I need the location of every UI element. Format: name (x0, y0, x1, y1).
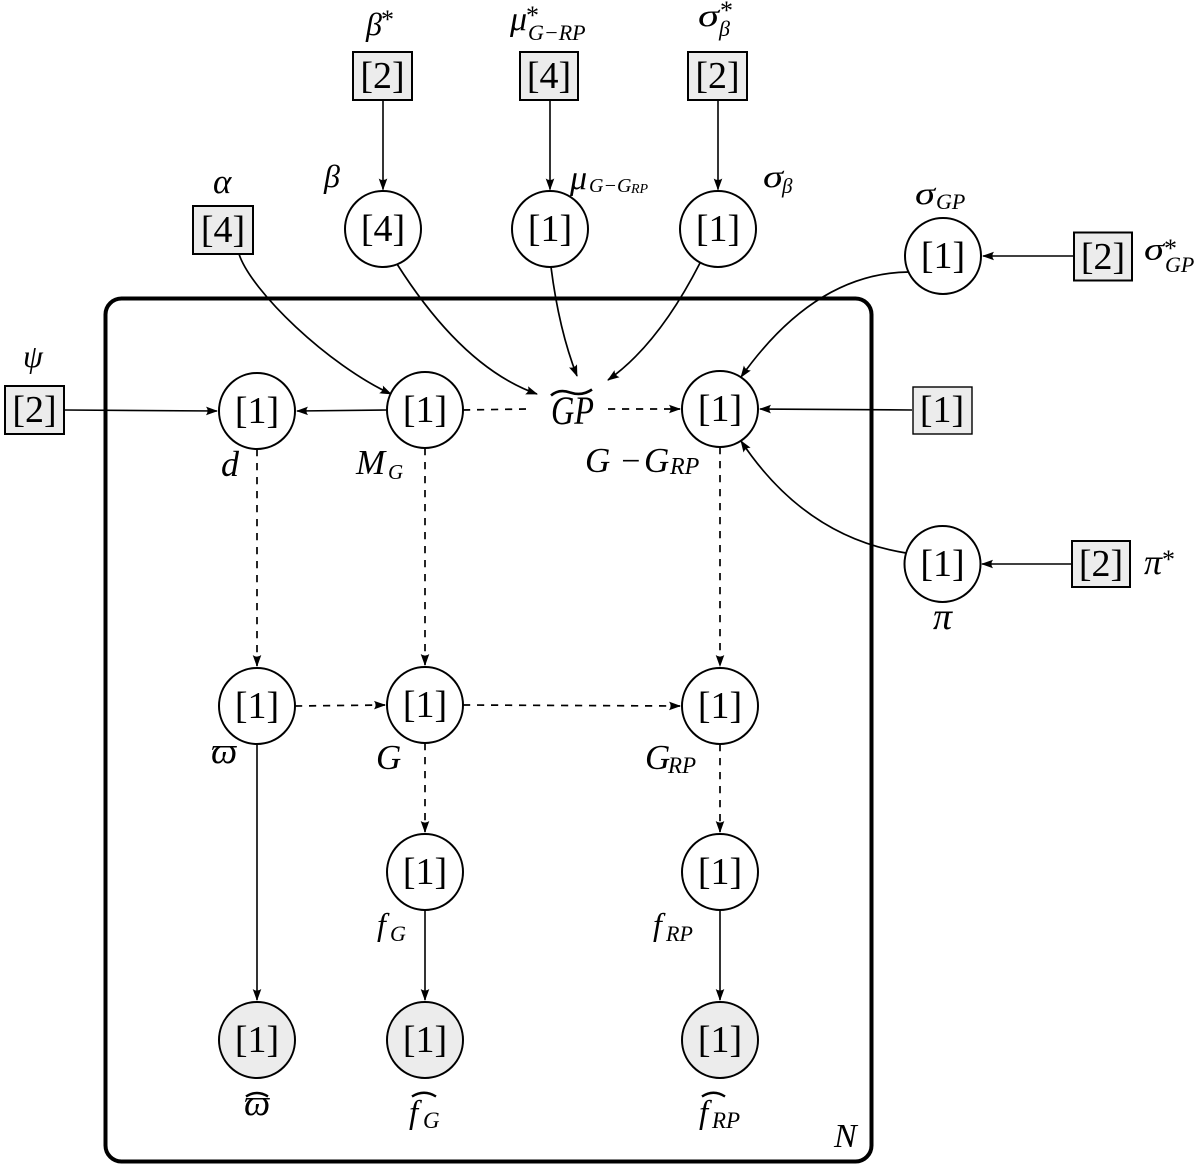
label fRP (653, 906, 693, 946)
svg-text:ϖ: ϖ (244, 1083, 270, 1124)
svg-text:ψ: ψ (23, 338, 44, 374)
svg-text:[1]: [1] (235, 685, 279, 727)
label MG (355, 443, 403, 484)
svg-text:[1]: [1] (698, 851, 742, 893)
node fRPhat circle shaded (682, 1002, 758, 1078)
label pi* (1144, 542, 1175, 582)
svg-text:[2]: [2] (695, 55, 739, 97)
node GGRP circle (682, 371, 758, 447)
label sigmaGP (915, 175, 965, 214)
node beta circle (345, 191, 421, 267)
wire d-to-varpi dashed (256, 449, 258, 666)
svg-text:GP: GP (551, 388, 594, 433)
label muGGRP (569, 160, 649, 197)
wire pi-to-GGRP curved (741, 441, 906, 553)
svg-text:[1]: [1] (920, 543, 964, 585)
node mu circle (512, 191, 588, 267)
wire fRP-to-fRPhat (719, 910, 721, 1000)
svg-text:RP: RP (711, 1108, 740, 1133)
node beta* box (353, 52, 412, 100)
svg-text:G: G (376, 738, 401, 777)
svg-text:d: d (221, 444, 240, 484)
label fG (377, 906, 406, 946)
label sigmabeta (763, 158, 793, 198)
node d circle (219, 373, 295, 449)
svg-text:[4]: [4] (201, 209, 245, 251)
node sigmaGP* box (1074, 233, 1132, 281)
svg-text:σ: σ (698, 0, 721, 33)
label mu*GRP (509, 1, 586, 45)
svg-text:RP: RP (630, 182, 649, 197)
svg-text:[1]: [1] (403, 851, 447, 893)
wire G-to-GRP dashed (463, 705, 680, 706)
wire fG-to-fGhat (424, 910, 426, 1000)
svg-text:[2]: [2] (1081, 236, 1125, 278)
svg-text:G: G (644, 441, 669, 480)
node const1 box (913, 387, 972, 434)
wire beta-to-GP curved (397, 264, 537, 394)
svg-text:RP: RP (669, 454, 700, 480)
svg-text:G: G (388, 460, 403, 484)
svg-text:ϖ: ϖ (211, 731, 237, 772)
svg-text:[4]: [4] (527, 55, 571, 97)
node varpi circle (219, 668, 295, 744)
label beta* (365, 5, 394, 42)
node sigmabeta circle (680, 191, 756, 267)
svg-text:GP: GP (1165, 252, 1194, 277)
node pi* box (1072, 541, 1130, 587)
svg-text:α: α (213, 162, 232, 201)
wire GP-to-GGRP dashed (608, 408, 680, 410)
svg-text:β: β (365, 6, 382, 42)
wire varpi-to-varpihat (256, 744, 258, 1000)
svg-text:π: π (933, 596, 953, 638)
svg-text:σ: σ (1144, 231, 1166, 267)
svg-text:RP: RP (667, 753, 696, 778)
wire psi-to-d (64, 410, 217, 411)
svg-text:β: β (718, 16, 730, 41)
node GRP circle (682, 668, 758, 744)
svg-text:G: G (585, 441, 610, 480)
svg-text:*: * (1162, 545, 1175, 574)
label varpihat (244, 1083, 270, 1124)
node psi box (5, 386, 64, 434)
label G-GRP (585, 441, 700, 480)
svg-text:[1]: [1] (698, 685, 742, 727)
svg-text:π: π (1144, 542, 1163, 582)
node MG circle (387, 372, 463, 448)
svg-text:[1]: [1] (403, 684, 447, 726)
wire MG-to-GP dashed (463, 409, 526, 410)
svg-text:G: G (645, 738, 670, 777)
svg-text:N: N (833, 1118, 859, 1155)
svg-text:[2]: [2] (12, 389, 56, 431)
svg-text:β: β (781, 174, 793, 198)
label fRPhat (699, 1093, 740, 1133)
svg-text:σ: σ (915, 175, 937, 211)
node sigmabeta* box (688, 52, 747, 100)
svg-text:[4]: [4] (361, 208, 405, 250)
wire MG-to-d (297, 410, 387, 411)
svg-text:[1]: [1] (235, 1019, 279, 1061)
svg-text:G−RP: G−RP (528, 20, 586, 45)
wire beta*-to-beta (382, 100, 384, 190)
svg-text:[2]: [2] (360, 55, 404, 97)
node alpha box (193, 206, 253, 254)
wire G-to-fG dashed (424, 743, 426, 832)
svg-text:*: * (381, 5, 394, 34)
label GRP (645, 738, 696, 778)
wire sigmaGP-to-GGRP curved (741, 272, 909, 377)
svg-text:β: β (323, 158, 340, 194)
svg-text:G: G (390, 921, 406, 946)
wire MG-to-G dashed (424, 448, 426, 665)
svg-text:GP: GP (936, 189, 965, 214)
svg-text:[2]: [2] (1079, 543, 1123, 585)
svg-text:μ: μ (509, 1, 527, 38)
svg-text:μ: μ (569, 160, 587, 197)
node pi circle (905, 526, 981, 602)
svg-text:G: G (423, 1108, 440, 1133)
wire mu-to-GP curved (551, 267, 577, 376)
svg-text:[1]: [1] (235, 390, 279, 432)
svg-text:[1]: [1] (403, 1019, 447, 1061)
wire mu*-to-mu (549, 100, 551, 190)
svg-text:[1]: [1] (528, 208, 572, 250)
svg-text:[1]: [1] (698, 1019, 742, 1061)
wire box1-to-GGRP (760, 409, 912, 410)
node GP tilde (551, 388, 594, 433)
label fGhat (409, 1093, 440, 1133)
svg-text:RP: RP (665, 921, 693, 946)
svg-text:−: − (619, 443, 642, 480)
svg-text:[1]: [1] (921, 235, 965, 277)
wire pi*-to-pi (982, 563, 1072, 565)
svg-text:[1]: [1] (920, 389, 964, 431)
node fRP circle (682, 834, 758, 910)
wire sigmabeta*-to-sigmabeta (717, 100, 719, 190)
node varpihat circle shaded (219, 1002, 295, 1078)
node sigmaGP circle (905, 218, 981, 294)
label sigmabeta* (698, 0, 733, 41)
svg-text:[1]: [1] (698, 388, 742, 430)
wire sigmaGP*-to-sigmaGP (983, 255, 1074, 257)
svg-text:G−G: G−G (589, 175, 632, 197)
svg-text:M: M (355, 443, 387, 482)
node mu* box (520, 52, 578, 100)
plate N (106, 299, 872, 1162)
label sigmaGP* (1144, 231, 1194, 278)
wire sigmabeta-to-GP curved (608, 263, 700, 380)
node G circle (387, 667, 463, 743)
node fG circle (387, 834, 463, 910)
svg-text:[1]: [1] (696, 208, 740, 250)
wire GGRP-to-GRP dashed (719, 447, 721, 666)
wire varpi-to-G dashed (295, 705, 385, 706)
wire GRP-to-fRP dashed (719, 744, 721, 832)
wire alpha-to-MG curved (239, 254, 391, 394)
node fGhat circle shaded (387, 1002, 463, 1078)
svg-text:[1]: [1] (403, 389, 447, 431)
